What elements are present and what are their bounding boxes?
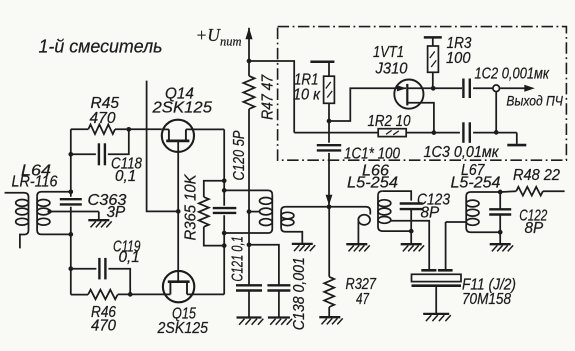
svg-text:1R2 10: 1R2 10	[368, 113, 411, 130]
svg-text:R365 10K: R365 10K	[183, 174, 200, 241]
svg-text:C120 5P: C120 5P	[231, 130, 248, 181]
svg-text:8P: 8P	[525, 220, 545, 237]
svg-text:1VT1: 1VT1	[373, 44, 404, 61]
svg-text:R47 47: R47 47	[260, 74, 277, 119]
svg-text:1-й смеситель: 1-й смеситель	[39, 36, 163, 57]
svg-text:470: 470	[90, 110, 116, 127]
svg-text:1C2 0,001мк: 1C2 0,001мк	[475, 66, 550, 83]
svg-text:Выход ПЧ: Выход ПЧ	[506, 94, 563, 109]
svg-text:J310: J310	[375, 61, 408, 78]
svg-text:470: 470	[91, 318, 116, 335]
svg-text:L5-254: L5-254	[451, 175, 501, 192]
svg-text:100: 100	[446, 50, 471, 67]
svg-text:8P: 8P	[421, 205, 441, 222]
svg-text:C121 0,1: C121 0,1	[230, 236, 247, 282]
svg-text:R48 22: R48 22	[513, 167, 560, 184]
svg-text:47: 47	[356, 291, 369, 308]
svg-text:C138 0,001: C138 0,001	[291, 257, 308, 330]
svg-text:L5-254: L5-254	[347, 175, 398, 192]
svg-text:70M158: 70M158	[462, 291, 511, 308]
svg-text:10 к: 10 к	[293, 87, 321, 104]
svg-text:2SK125: 2SK125	[157, 320, 209, 337]
svg-text:3P: 3P	[107, 204, 127, 221]
svg-text:0,1: 0,1	[115, 168, 136, 185]
svg-text:1C3 0,01мк: 1C3 0,01мк	[424, 144, 500, 161]
svg-text:2SK125: 2SK125	[151, 100, 212, 117]
svg-text:+Uпит: +Uпит	[196, 25, 242, 49]
svg-text:0,1: 0,1	[119, 249, 140, 266]
svg-text:1C1* 100: 1C1* 100	[344, 146, 400, 163]
svg-text:LR-116: LR-116	[12, 174, 58, 191]
